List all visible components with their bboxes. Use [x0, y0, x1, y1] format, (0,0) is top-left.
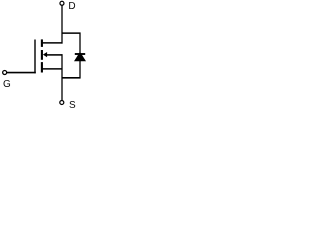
wire: drain stem from D terminal down then left to MOSFET drain: [61, 5, 63, 43]
label G (gate): [3, 80, 11, 90]
label S (source): [69, 101, 76, 111]
wire: bulk arrow line to rail: [47, 54, 63, 56]
terminal circle S: [60, 100, 64, 104]
terminal circle G: [3, 71, 7, 75]
transistor Q1 bulk arrowhead pointing at channel: [43, 52, 47, 57]
wire: diode anode down and left to source rail: [79, 61, 81, 78]
wire: source rail from bulk-arrow corner down to S terminal: [61, 54, 63, 100]
terminal circle D: [60, 1, 64, 5]
transistor Q1 channel segment (source side): [41, 62, 43, 72]
wire: gate lead from G terminal to gate bar: [7, 72, 36, 74]
transistor Q1 channel segment (drain side): [41, 39, 43, 47]
diode D1 cathode bar: [75, 53, 85, 55]
diode D1 anode triangle (pointing up): [74, 52, 86, 62]
transistor Q1 gate bar: [34, 40, 36, 74]
label D (drain): [68, 2, 75, 12]
transistor Q1 channel segment (bulk, middle): [41, 50, 43, 60]
wire: MOSFET source lead to rail: [42, 68, 63, 70]
wire: branch from drain stem right to body diode cathode: [62, 32, 81, 34]
